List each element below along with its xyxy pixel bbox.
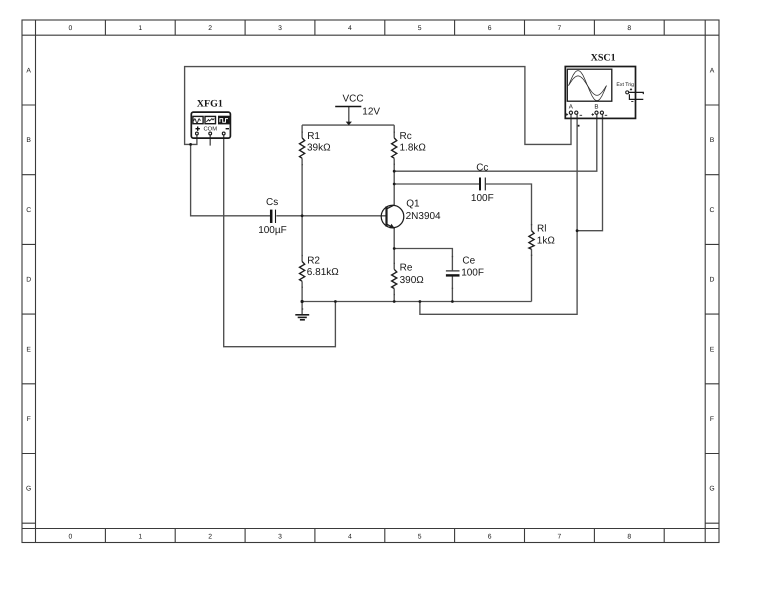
svg-text:8: 8 [627,533,631,540]
svg-text:12V: 12V [362,106,380,117]
svg-text:1: 1 [138,25,142,32]
svg-text:Ce: Ce [462,256,475,267]
svg-text:A: A [26,67,31,74]
svg-text:C: C [26,207,31,214]
svg-text:4: 4 [348,533,352,540]
svg-text:B: B [26,137,31,144]
svg-text:Rl: Rl [537,224,546,235]
svg-text:8: 8 [627,25,631,32]
svg-text:0: 0 [69,533,73,540]
svg-text:Re: Re [400,263,413,274]
svg-text:4: 4 [348,25,352,32]
svg-text:XSC1: XSC1 [591,52,616,63]
svg-text:7: 7 [558,25,562,32]
svg-text:R2: R2 [307,255,320,266]
svg-text:5: 5 [418,533,422,540]
svg-text:2: 2 [208,533,212,540]
svg-text:Q1: Q1 [406,199,420,210]
svg-text:Ext Trig: Ext Trig [616,82,634,88]
svg-text:E: E [26,346,31,353]
svg-text:6.81kΩ: 6.81kΩ [307,267,339,278]
svg-text:COM: COM [204,126,218,133]
svg-text:B: B [594,104,598,111]
svg-text:Cs: Cs [266,197,278,208]
svg-text:B: B [710,137,715,144]
svg-text:100F: 100F [461,267,484,278]
svg-text:100µF: 100µF [258,225,287,236]
svg-text:6: 6 [488,533,492,540]
svg-text:Rc: Rc [400,131,412,142]
svg-text:39kΩ: 39kΩ [307,143,331,154]
svg-text:E: E [710,346,715,353]
svg-text:5: 5 [418,25,422,32]
svg-text:1: 1 [138,533,142,540]
svg-text:3: 3 [278,533,282,540]
svg-text:100F: 100F [471,193,494,204]
svg-text:1kΩ: 1kΩ [537,236,556,247]
svg-text:2: 2 [208,25,212,32]
svg-text:R1: R1 [307,131,320,142]
svg-text:F: F [27,416,31,423]
svg-text:2N3904: 2N3904 [406,211,441,222]
svg-text:XFG1: XFG1 [197,99,223,110]
svg-text:VCC: VCC [343,94,364,105]
svg-text:D: D [26,277,31,284]
svg-text:G: G [709,486,714,493]
svg-text:1.8kΩ: 1.8kΩ [400,143,427,154]
svg-text:390Ω: 390Ω [400,275,425,286]
svg-text:7: 7 [558,533,562,540]
svg-text:3: 3 [278,25,282,32]
svg-text:F: F [710,416,714,423]
svg-text:A: A [710,67,715,74]
svg-text:0: 0 [69,25,73,32]
svg-text:G: G [26,486,31,493]
svg-text:D: D [710,277,715,284]
svg-text:C: C [710,207,715,214]
svg-text:6: 6 [488,25,492,32]
svg-text:Cc: Cc [476,162,488,173]
